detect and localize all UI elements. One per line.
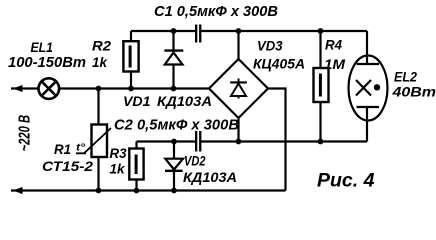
svg-text:C1 0,5мкФ x 300В: C1 0,5мкФ x 300В [154,3,278,20]
svg-text:EL2: EL2 [394,68,417,84]
svg-text:~220 В: ~220 В [17,115,34,152]
svg-text:VD2: VD2 [184,152,206,168]
svg-text:КД103А: КД103А [183,169,237,185]
svg-text:R3: R3 [110,145,127,161]
svg-text:КЦ405А: КЦ405А [253,55,305,71]
svg-text:EL1: EL1 [31,39,54,55]
svg-text:R4: R4 [325,36,342,52]
svg-text:40Вт: 40Вт [391,84,436,100]
svg-text:100-150Вт: 100-150Вт [8,55,86,71]
svg-text:Рис. 4: Рис. 4 [317,171,375,192]
svg-text:1M: 1M [324,56,345,72]
svg-text:VD3: VD3 [257,37,283,53]
svg-text:КД103А: КД103А [157,93,212,109]
svg-text:t°: t° [76,143,86,154]
svg-text:VD1: VD1 [123,93,151,109]
svg-text:R1: R1 [54,141,71,157]
svg-text:СТ15-2: СТ15-2 [42,158,93,174]
svg-text:C2 0,5мкФ x 300В: C2 0,5мкФ x 300В [114,116,239,133]
svg-text:1k: 1k [110,161,126,177]
svg-text:R2: R2 [92,37,111,53]
svg-text:1k: 1k [92,54,108,70]
